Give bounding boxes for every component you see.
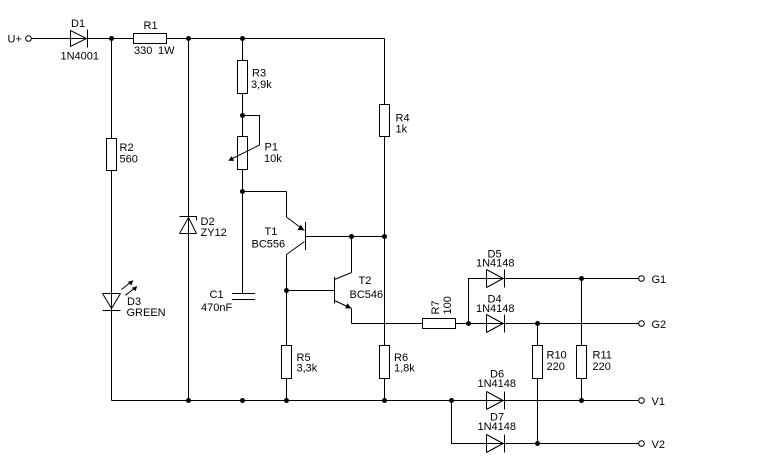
terminal G2 (639, 319, 666, 331)
transistor T2 BC546 (335, 273, 384, 309)
wire top rail to R4 (384, 39, 386, 105)
wire T1 base down to node (286, 255, 288, 291)
wire R11 to V1 line (581, 379, 583, 401)
wire R10 to V2 line (537, 379, 539, 444)
wire R10 branch top (537, 324, 539, 346)
svg-text:V1: V1 (652, 396, 665, 408)
terminal V2 (639, 439, 665, 451)
wire T2 collector vertical (351, 237, 353, 273)
node junction T1 base / T2 base / R5 (284, 288, 289, 293)
resistor R7 100 (423, 296, 456, 328)
node junction V1 line / R11 bottom (579, 398, 584, 403)
wire D7 to V2 (503, 443, 639, 445)
node junction top rail / D2 branch (186, 36, 191, 41)
terminal G1 (639, 274, 666, 286)
wire T1 emitter vertical (286, 192, 288, 218)
svg-text:100: 100 (442, 296, 454, 314)
wire P1 to C1 (242, 170, 244, 294)
wire R7 to D4 (456, 323, 504, 325)
resistor R11 220 (577, 346, 612, 379)
wire D3 to bottom rail (111, 294, 113, 401)
svg-text:3,3k: 3,3k (297, 363, 318, 375)
resistor R6 1,8k (380, 346, 416, 379)
wire D2 branch vertical (188, 39, 190, 401)
wire T1 collector to R4 branch (306, 236, 385, 238)
svg-text:220: 220 (547, 361, 565, 373)
wire T2 emitter to R7 (352, 323, 423, 325)
svg-text:1N4148: 1N4148 (478, 378, 517, 390)
wire R5 branch (286, 291, 288, 346)
svg-text:D1: D1 (71, 18, 85, 30)
wire R5 to bottom rail (286, 379, 288, 401)
transistor T1 BC556 (252, 217, 306, 255)
svg-text:3,9k: 3,9k (251, 79, 272, 91)
svg-text:1W: 1W (158, 45, 175, 57)
svg-text:R7: R7 (430, 300, 442, 314)
node junction top rail / R3 branch (240, 36, 245, 41)
wire R3 branch top (242, 39, 244, 61)
zener diode D2 ZY12 (180, 216, 227, 239)
diode D4 1N4148 (476, 294, 515, 333)
resistor R1 330 1W (134, 20, 176, 57)
svg-text:1N4001: 1N4001 (61, 51, 100, 63)
svg-text:GREEN: GREEN (127, 307, 166, 319)
node junction bottom rail / D7 branch (449, 398, 454, 403)
svg-text:G2: G2 (652, 319, 667, 331)
svg-text:R2: R2 (120, 142, 134, 154)
svg-text:ZY12: ZY12 (201, 227, 227, 239)
wire D6 to V1 (503, 400, 639, 402)
svg-text:1N4148: 1N4148 (478, 421, 517, 433)
diode D5 1N4148 (476, 249, 515, 288)
terminal U+ (8, 34, 32, 46)
svg-text:470nF: 470nF (201, 302, 232, 314)
wire T1 emitter horizontal (243, 191, 287, 193)
node junction D1/R1/R2 (109, 36, 114, 41)
node junction V2 line / R10 bottom (535, 441, 540, 446)
wire P1 wiper loop (243, 116, 260, 146)
wire U+ to D1 (32, 38, 87, 40)
wire D4 to G2 (503, 323, 639, 325)
wire T2 base (287, 290, 335, 292)
svg-text:10k: 10k (264, 153, 282, 165)
terminal V1 (639, 396, 665, 408)
node junction G2 line / R10 branch (535, 321, 540, 326)
wire D5 branch up (469, 279, 504, 324)
svg-text:BC546: BC546 (350, 289, 384, 301)
resistor R4 1k (380, 105, 410, 137)
node junction bottom rail / R6 branch (382, 398, 387, 403)
svg-text:R11: R11 (593, 350, 612, 362)
node junction R3/P1 wiper (240, 113, 245, 118)
node junction P1 bottom / T1 emitter (240, 189, 245, 194)
svg-text:R3: R3 (252, 68, 266, 80)
svg-text:1N4148: 1N4148 (476, 258, 515, 270)
node junction T1 collector / T2 collector (349, 234, 354, 239)
svg-text:G1: G1 (652, 274, 667, 286)
capacitor C1 470nF (201, 289, 255, 314)
node junction R7 / D5 branch (466, 321, 471, 326)
svg-text:C1: C1 (210, 289, 224, 301)
svg-text:1,8k: 1,8k (394, 363, 415, 375)
wire D5 to G1 (503, 278, 639, 280)
svg-text:T1: T1 (265, 226, 278, 238)
wire R2 to D3 (111, 171, 113, 294)
node junction bottom rail / C1 branch (240, 398, 245, 403)
wire R11 branch top (581, 279, 583, 346)
node junction bottom rail / R5 branch (284, 398, 289, 403)
node junction bottom rail / D2 branch (186, 398, 191, 403)
resistor R5 3,3k (282, 346, 318, 379)
wire R3 to P1 (242, 94, 244, 137)
svg-text:BC556: BC556 (252, 239, 286, 251)
wire T2 emitter vertical (351, 309, 353, 324)
resistor R3 3,9k (238, 61, 273, 94)
svg-text:1N4148: 1N4148 (476, 303, 515, 315)
resistor R10 220 (533, 346, 567, 379)
potentiometer P1 10k (228, 137, 282, 170)
node junction G1 line / R11 branch (579, 276, 584, 281)
diode D7 1N4148 (478, 412, 517, 453)
wire bottom rail (112, 400, 504, 402)
svg-text:P1: P1 (265, 142, 278, 154)
resistor R2 560 (107, 139, 138, 171)
svg-text:560: 560 (120, 154, 138, 166)
diode D6 1N4148 (478, 369, 517, 410)
svg-text:R10: R10 (547, 350, 567, 362)
wire D7 branch down (452, 401, 504, 444)
node junction T1 collector / R4 branch (382, 234, 387, 239)
wire R4 to R6 (384, 137, 386, 346)
wire R1 to top-right corner (167, 38, 385, 40)
LED D3 GREEN (103, 280, 166, 319)
svg-text:220: 220 (593, 361, 611, 373)
wire R2 branch top (111, 39, 113, 139)
svg-text:V2: V2 (652, 439, 665, 451)
diode D1 1N4001 (61, 18, 100, 63)
svg-text:U+: U+ (8, 34, 22, 46)
wire R6 to bottom rail (384, 379, 386, 401)
wire D1 to R1 (87, 38, 134, 40)
svg-text:1k: 1k (396, 124, 408, 136)
svg-text:R1: R1 (144, 20, 158, 32)
svg-text:T2: T2 (359, 275, 372, 287)
svg-text:330: 330 (134, 45, 152, 57)
